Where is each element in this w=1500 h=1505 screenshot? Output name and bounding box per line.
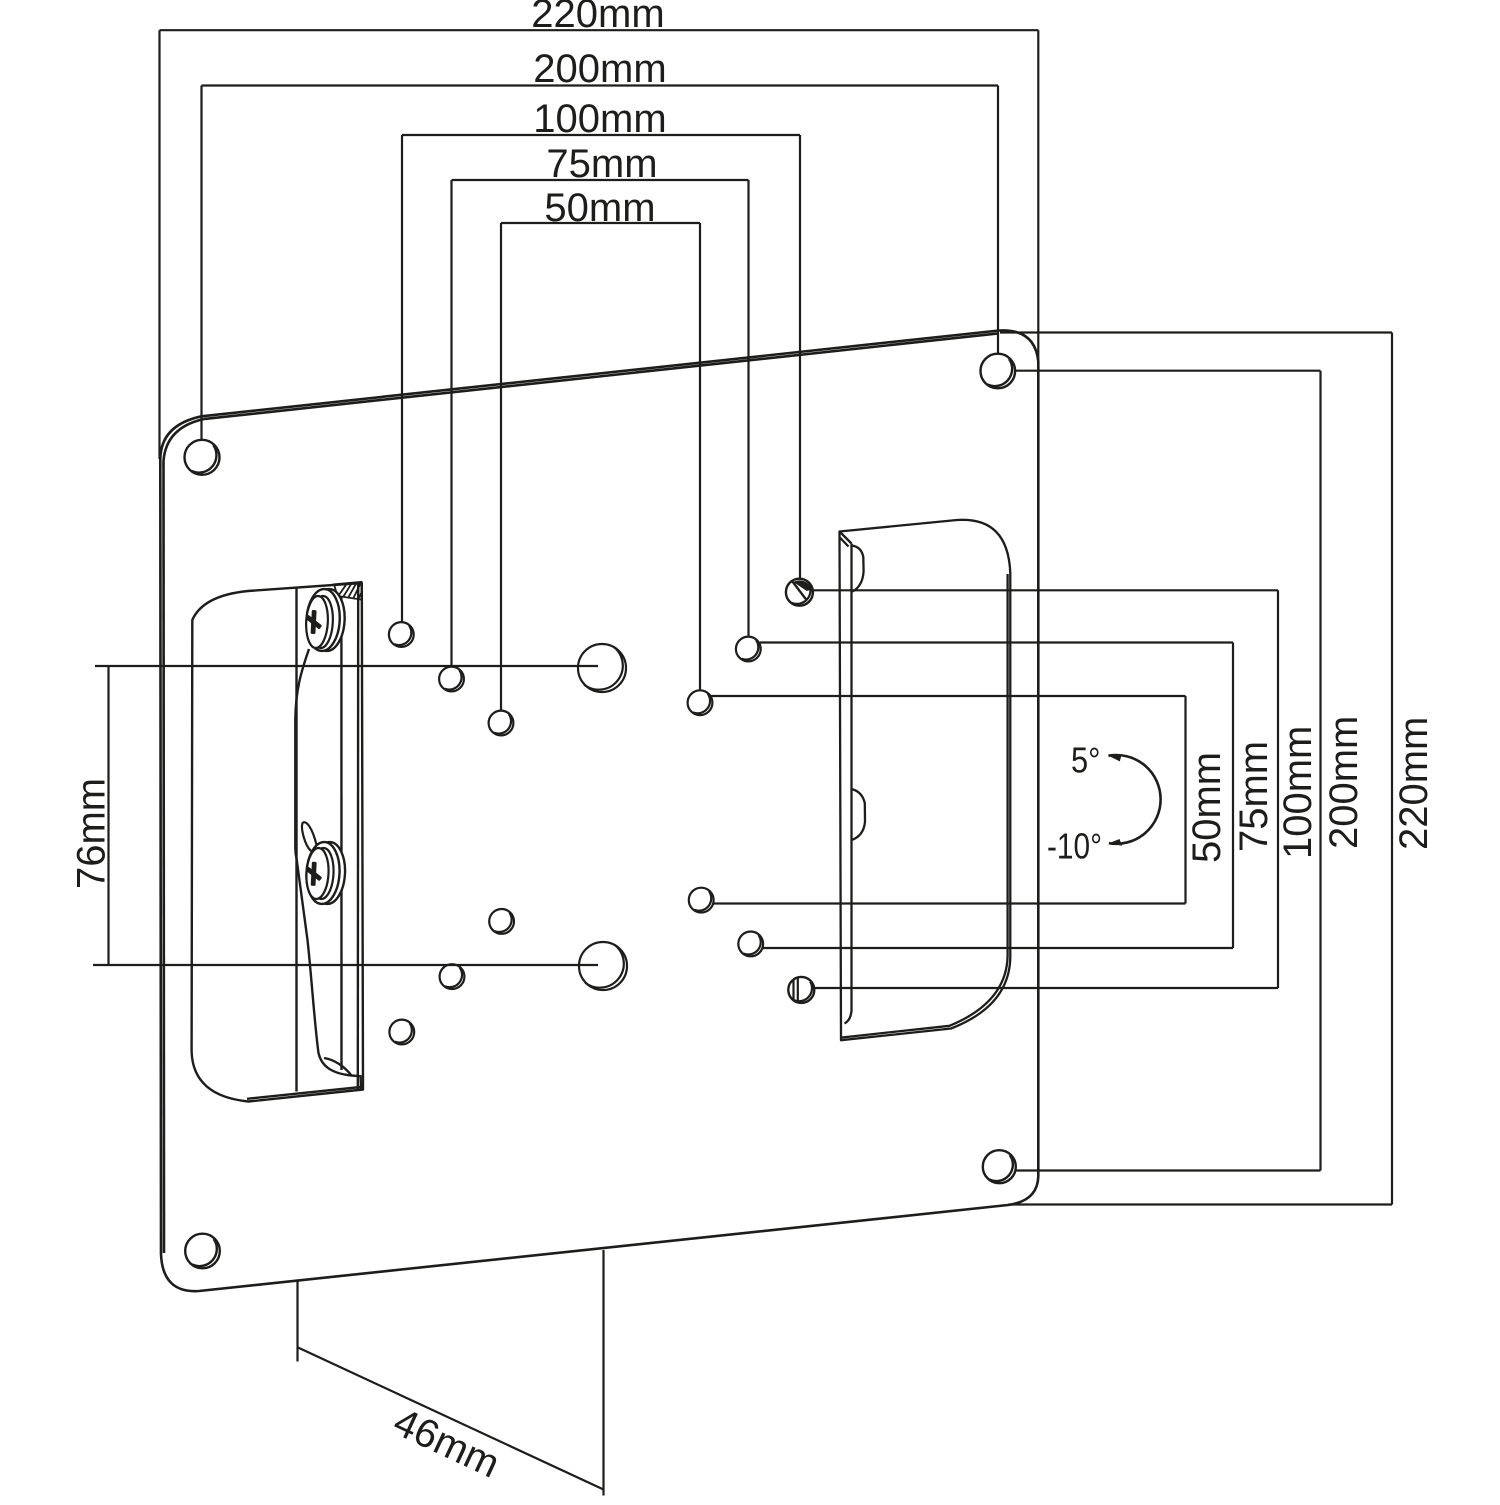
svg-text:75mm: 75mm bbox=[1232, 741, 1276, 852]
svg-text:220mm: 220mm bbox=[1392, 717, 1436, 850]
svg-text:-10°: -10° bbox=[1047, 826, 1102, 867]
svg-text:5°: 5° bbox=[1071, 740, 1101, 781]
svg-text:75mm: 75mm bbox=[546, 142, 657, 186]
svg-text:76mm: 76mm bbox=[70, 778, 114, 889]
svg-text:200mm: 200mm bbox=[533, 47, 666, 91]
svg-text:100mm: 100mm bbox=[1276, 726, 1320, 859]
svg-text:220mm: 220mm bbox=[531, 0, 664, 36]
svg-text:100mm: 100mm bbox=[533, 97, 666, 141]
svg-text:50mm: 50mm bbox=[544, 186, 655, 230]
svg-text:200mm: 200mm bbox=[1322, 716, 1366, 849]
svg-text:50mm: 50mm bbox=[1185, 752, 1229, 863]
